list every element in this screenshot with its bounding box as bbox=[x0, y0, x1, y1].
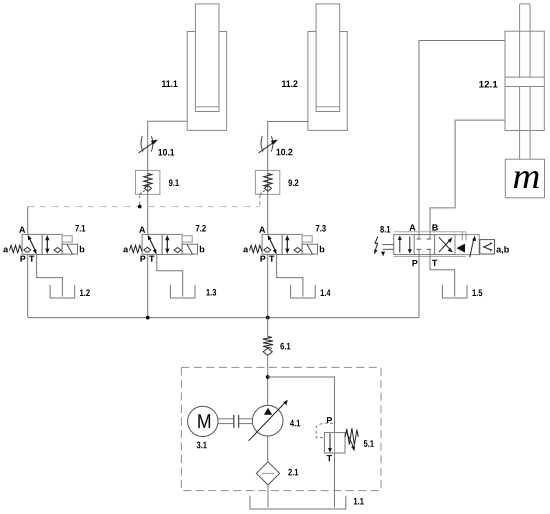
motor 3.1 bbox=[188, 406, 218, 436]
label 7.2 bbox=[196, 225, 206, 232]
label 11.1 bbox=[162, 80, 177, 87]
port label T valve 7.3 bbox=[269, 256, 274, 262]
tank 1.4 bbox=[291, 285, 316, 298]
valve 8.1 (4/3 proportional directional) bbox=[394, 235, 455, 255]
rails valve 8.1 bbox=[394, 231, 466, 233]
port label P valve 8.1 bbox=[412, 260, 417, 266]
tank 1.5 bbox=[442, 285, 467, 298]
pilot line 9.2 (dashed riser) bbox=[259, 194, 261, 206]
cylinder 12.1 bbox=[505, 4, 544, 159]
wire valve 7.2 T to tank 1.3 bbox=[157, 254, 183, 296]
wire 9.2 to valve 7.3 bbox=[267, 194, 269, 234]
tank 1.2 bbox=[50, 285, 75, 298]
cylinder 11.2 bbox=[308, 4, 347, 130]
port label T valve 7.2 bbox=[149, 256, 154, 262]
wire pump to filter bbox=[267, 436, 269, 462]
wire valve 7.2 P to supply bus bbox=[147, 254, 149, 317]
wire relief valve T to tank 1.1 bbox=[334, 453, 336, 508]
label 2.1 bbox=[288, 469, 298, 476]
shaft coupling motor-pump bbox=[217, 415, 252, 428]
port label a valve 7.2 bbox=[123, 247, 128, 252]
wire cylinder 11.1 to node bbox=[148, 121, 188, 170]
junction dot pump / relief branch bbox=[266, 375, 270, 379]
wire valve 7.1 P to supply bus bbox=[27, 254, 29, 317]
proportional solenoid fork valve 8.1 bbox=[381, 245, 394, 257]
label 9.2 bbox=[288, 179, 298, 186]
port label A valve 7.3 bbox=[259, 227, 265, 233]
label 9.1 bbox=[169, 179, 179, 186]
label 3.1 bbox=[197, 442, 207, 449]
flow control valve 10.1 bbox=[139, 136, 158, 153]
pilot line relief valve (dashed) bbox=[316, 423, 333, 438]
wire filter to tank 1.1 bbox=[267, 485, 269, 508]
pump 4.1 bbox=[249, 400, 288, 441]
valve 7.2 (3/2 directional) bbox=[130, 234, 198, 254]
port label T valve 8.1 bbox=[432, 260, 437, 266]
wire valve 8.1 port B to cylinder 12.1 bottom bbox=[430, 120, 505, 239]
filter 2.1 bbox=[256, 462, 279, 485]
port label a valve 7.3 bbox=[243, 247, 248, 252]
port label A valve 7.2 bbox=[139, 227, 145, 233]
wire 9.1 to valve 7.2 bbox=[147, 194, 149, 234]
label 10.2 bbox=[276, 149, 292, 156]
pressure valve 9.2 bbox=[255, 170, 279, 194]
label 10.1 bbox=[158, 149, 174, 156]
pilot bus (dashed) bbox=[28, 206, 260, 208]
port label a valve 7.1 bbox=[3, 247, 8, 252]
label 4.1 bbox=[290, 420, 300, 427]
wire valve 7.1 port A to pilot bus bbox=[27, 207, 29, 235]
label 1.4 bbox=[321, 289, 331, 296]
port label P valve 7.2 bbox=[140, 256, 145, 262]
pilot line 9.1 (dashed riser) bbox=[139, 194, 141, 206]
port label B valve 8.1 bbox=[432, 224, 437, 230]
label 12.1 bbox=[479, 81, 497, 88]
wire valve 8.1 T to tank 1.5 bbox=[430, 255, 455, 297]
flow control valve 10.2 bbox=[259, 136, 278, 153]
port label b valve 7.2 bbox=[200, 246, 205, 253]
mass m box bbox=[505, 159, 544, 198]
wire valve 7.1 T to tank 1.2 bbox=[37, 254, 63, 296]
port label P valve 7.3 bbox=[260, 256, 265, 262]
pressure valve 9.1 bbox=[136, 170, 160, 194]
wire check valve to pump bbox=[267, 355, 269, 405]
label 1.1 bbox=[354, 498, 364, 505]
valve 7.3 (3/2 directional) bbox=[250, 234, 318, 254]
label 8.1 bbox=[380, 226, 390, 233]
junction dot bus / valve 7.2 P bbox=[146, 316, 150, 320]
port label T relief valve bbox=[327, 455, 332, 461]
enclosure dashed box power unit bbox=[181, 367, 381, 490]
wire valve 7.3 P to supply bus bbox=[267, 254, 269, 317]
tank 1.1 bbox=[250, 496, 346, 509]
junction dot pilot bus bbox=[138, 205, 142, 209]
label 11.2 bbox=[282, 80, 297, 87]
check valve 6.1 bbox=[263, 337, 273, 356]
port label A valve 8.1 bbox=[409, 224, 415, 230]
wire valve 7.3 T to tank 1.4 bbox=[277, 254, 303, 296]
label 1.5 bbox=[472, 289, 482, 296]
label 1.2 bbox=[80, 289, 90, 296]
port label P valve 7.1 bbox=[20, 256, 25, 262]
tank 1.3 bbox=[170, 285, 195, 298]
relief valve 5.1 bbox=[324, 428, 358, 453]
label 5.1 bbox=[364, 440, 374, 447]
port label P relief valve bbox=[327, 417, 332, 423]
label a,b valve 8.1 bbox=[496, 246, 508, 254]
port label T valve 7.1 bbox=[29, 256, 34, 262]
label 6.1 bbox=[280, 343, 290, 350]
port label A valve 7.1 bbox=[19, 227, 25, 233]
port label b valve 7.3 bbox=[320, 246, 325, 253]
wire bus to check valve 6.1 bbox=[267, 318, 269, 337]
valve 7.1 (3/2 directional) bbox=[10, 234, 78, 254]
label 7.3 bbox=[316, 225, 326, 232]
wire valve 8.1 port A to cylinder 12.1 top bbox=[419, 41, 505, 240]
supply bus bbox=[28, 317, 419, 319]
wire valve 8.1 P to supply bus bbox=[418, 255, 420, 318]
cylinder 11.1 bbox=[187, 4, 226, 130]
solenoid lightning valve 8.1 bbox=[374, 237, 378, 255]
label 7.1 bbox=[75, 225, 85, 232]
wire cylinder 11.2 to node bbox=[268, 122, 308, 171]
wire branch to relief valve 5.1 bbox=[268, 377, 335, 433]
label 1.3 bbox=[206, 289, 216, 296]
pilot box valve 8.1 bbox=[455, 232, 479, 257]
junction dot bus / valve 7.3 P / pump line bbox=[266, 316, 270, 320]
spring box valve 8.1 bbox=[480, 240, 495, 254]
port label b valve 7.1 bbox=[80, 246, 85, 253]
